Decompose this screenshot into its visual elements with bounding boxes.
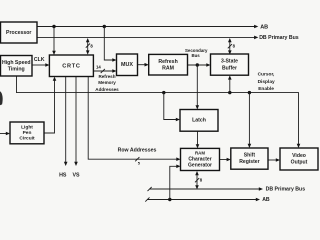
block 3-State Buffer <box>211 54 249 75</box>
svg-text:Cursor,: Cursor, <box>258 72 275 78</box>
wire CLK HighSpeedTiming to CRTC <box>32 64 46 66</box>
wire enable to buffer <box>229 79 231 93</box>
svg-text:Register: Register <box>239 159 259 165</box>
svg-text:Bus: Bus <box>191 53 200 58</box>
wire shift register to video output <box>268 159 277 161</box>
svg-text:Memory: Memory <box>98 80 116 85</box>
svg-text:Output: Output <box>291 160 308 166</box>
svg-text:RAM: RAM <box>162 65 174 71</box>
block MUX <box>117 54 138 76</box>
svg-text:Processor: Processor <box>6 30 31 36</box>
svg-text:DB Primary Bus: DB Primary Bus <box>266 187 306 193</box>
bus-width slash 5 (row addresses) <box>135 157 139 161</box>
wire secondary bus RAM to buffer <box>188 64 208 66</box>
bus-width slash 8 (buffer-DB) <box>228 44 232 48</box>
junction enable line to shift register <box>248 91 251 94</box>
junction on AB above CRTC <box>52 25 55 28</box>
svg-text:Pen: Pen <box>23 130 32 136</box>
wire row addresses CRTC to char generator <box>88 77 177 160</box>
svg-text:Refresh: Refresh <box>98 74 115 79</box>
svg-text:AB: AB <box>262 197 270 203</box>
junction on secondary bus <box>196 63 199 66</box>
wire DB top horizontal <box>37 36 255 38</box>
svg-text:MUX: MUX <box>121 62 133 68</box>
wire AB top horizontal <box>37 26 255 28</box>
wire char generator to DB bottom vertical <box>196 174 198 186</box>
block RAM Character Generator <box>181 148 220 170</box>
block Shift Register <box>231 148 268 169</box>
svg-text:Shift: Shift <box>244 153 256 159</box>
wire AB down to MUX <box>104 27 113 61</box>
wire light pen to CRTC <box>44 80 55 133</box>
wire refresh memory addresses CRTC to MUX <box>93 70 113 72</box>
svg-text:CLK: CLK <box>34 57 45 63</box>
svg-text:Enable: Enable <box>258 86 274 92</box>
junction AB bottom to char generator <box>168 198 171 201</box>
bus-width slash (AB bottom) <box>145 197 149 201</box>
svg-text:VS: VS <box>72 173 80 179</box>
svg-text:Latch: Latch <box>192 118 206 124</box>
block CRTC U1 <box>49 55 93 77</box>
wire AB to CRTC top <box>53 27 55 52</box>
svg-text:RAM: RAM <box>195 151 205 156</box>
bus-width slash 8 (CRTC-DB) <box>86 44 90 48</box>
wire latch to character generator <box>197 131 199 145</box>
svg-text:14: 14 <box>96 65 101 70</box>
wire VS sync output <box>75 77 77 163</box>
wire secondary bus to latch <box>196 65 198 106</box>
junction on AB above MUX <box>103 25 106 28</box>
bus-width slash 8 (char gen) <box>195 178 199 182</box>
block Processor <box>1 22 38 43</box>
wire char generator to shift register <box>220 159 228 161</box>
scan artifact blob left margin <box>0 91 3 105</box>
wire buffer to DB bus vertical <box>229 41 231 52</box>
block Video Output <box>280 148 318 170</box>
svg-text:Timing: Timing <box>8 66 25 72</box>
junction enable line to buffer <box>228 91 231 94</box>
wire AB bottom <box>147 199 257 201</box>
svg-text:Addresses: Addresses <box>95 87 119 92</box>
wire enable to shift register <box>248 93 250 145</box>
svg-text:AB: AB <box>260 24 268 30</box>
svg-text:Refresh: Refresh <box>158 59 177 65</box>
svg-text:HS: HS <box>59 173 67 179</box>
junction enable line to latch branch <box>162 91 165 94</box>
svg-text:Generator: Generator <box>188 163 212 169</box>
wire HS sync output <box>65 77 67 163</box>
svg-text:High Speed: High Speed <box>2 60 31 66</box>
svg-text:Row Addresses: Row Addresses <box>118 148 157 154</box>
wire timing-enable line from HighSpeedTiming <box>17 76 299 145</box>
svg-text:Buffer: Buffer <box>222 65 237 71</box>
svg-text:DB Primary Bus: DB Primary Bus <box>259 35 299 41</box>
bus-width slash (DB bottom) <box>148 187 152 191</box>
block High Speed Timing <box>1 56 33 77</box>
wire input to light pen circuit <box>0 133 7 135</box>
svg-text:Circuit: Circuit <box>19 136 35 142</box>
block Refresh RAM <box>149 54 188 75</box>
wire branch to latch <box>164 93 177 120</box>
wire MUX to Refresh RAM <box>138 64 146 66</box>
svg-text:Display: Display <box>258 79 275 85</box>
bus-width slash 14 <box>101 69 105 73</box>
wire CRTC to DB bus vertical <box>87 41 89 52</box>
block Latch <box>180 110 218 132</box>
svg-text:3-State: 3-State <box>221 59 238 65</box>
block Light Pen Circuit <box>10 122 44 144</box>
svg-text:CRTC: CRTC <box>62 63 80 69</box>
svg-text:Light: Light <box>21 125 33 131</box>
svg-text:Video: Video <box>292 153 306 159</box>
wire AB bottom to char generator <box>170 166 178 199</box>
wire DB primary bus bottom <box>149 188 259 190</box>
